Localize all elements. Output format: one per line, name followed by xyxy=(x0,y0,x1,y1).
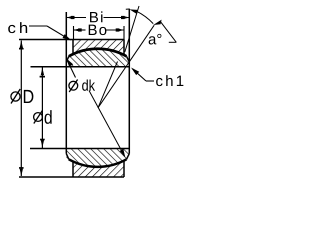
inner ring left face / Bi extension line xyxy=(65,12,67,62)
alpha construction line L1 lower segment (from sphere centre) xyxy=(98,62,118,108)
alpha construction line L1 upper segment xyxy=(125,6,139,52)
Bi dimension line xyxy=(66,17,86,19)
inner ring bottom cross-section (hatched) xyxy=(66,149,129,167)
bore top line + extension xyxy=(31,66,130,68)
diameter symbol of Odk label xyxy=(69,80,78,93)
letter D of OD label xyxy=(24,90,34,103)
outer ring right face bottom xyxy=(123,161,125,177)
Ødk leader xyxy=(67,60,76,78)
diameter symbol of Od label xyxy=(34,111,43,124)
OD top edge + extension line xyxy=(19,39,124,41)
letters dk of Odk label xyxy=(82,79,95,90)
outer ring left face top xyxy=(72,40,74,55)
label ch xyxy=(8,22,27,33)
diameter symbol of OD label xyxy=(11,89,20,104)
chamfer bottom-left inner ring xyxy=(66,154,69,160)
alpha construction line L2 (shallow, through sphere centre) xyxy=(98,25,154,108)
outer ring left face bottom xyxy=(72,161,74,177)
alpha arc arrow xyxy=(126,8,130,10)
ch leader xyxy=(29,25,47,27)
bore bottom line + extension xyxy=(30,148,129,150)
chamfer bottom-right inner ring xyxy=(127,154,130,160)
label ch1 xyxy=(156,75,183,86)
label Bo xyxy=(89,25,107,35)
dimension Ød line xyxy=(41,67,43,148)
Bo left tick xyxy=(73,26,75,40)
label alpha degrees xyxy=(149,34,162,45)
alpha label leader (diagonal + foot) xyxy=(161,22,177,42)
letter d of Od label xyxy=(45,110,52,124)
sphere arc top (thick) xyxy=(69,49,127,57)
Bo dimension line xyxy=(74,29,86,31)
chamfer top-left inner ring xyxy=(66,56,69,62)
chamfer top-right inner ring (ch1) xyxy=(127,56,130,62)
outer ring right face top xyxy=(123,40,125,56)
small tick on Ød line xyxy=(40,76,45,78)
inner ring right face / extension line xyxy=(128,9,130,62)
dimension ØD line xyxy=(20,41,22,177)
outer ring top cross-section (hatched) xyxy=(73,40,124,56)
outer ring outline top xyxy=(19,9,129,177)
outer ring bottom cross-section (hatched) xyxy=(73,161,124,177)
Bo right tick xyxy=(123,26,125,40)
label Bi xyxy=(90,11,102,22)
ch1 leader xyxy=(146,80,154,82)
OD bottom edge + extension line xyxy=(19,176,124,178)
tilted axis construction line through sphere centre xyxy=(89,91,125,157)
sphere arc bottom (thick) xyxy=(69,159,127,167)
inner ring top cross-section (hatched) xyxy=(66,49,129,67)
